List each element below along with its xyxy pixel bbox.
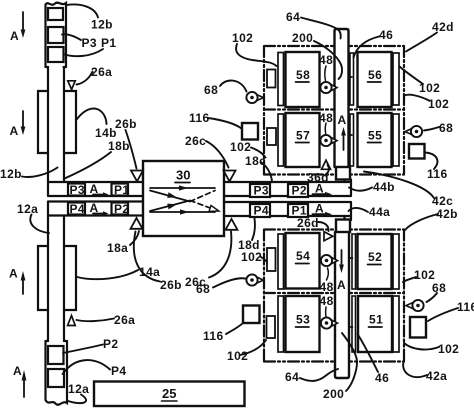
svg-text:48: 48	[320, 280, 334, 294]
fan 68 (right of 42b, apex left)	[406, 303, 413, 309]
stub connecting upper bus to plenum square 36d	[345, 180, 352, 183]
port box P2 in 12a	[48, 346, 64, 364]
flow arrow A (down) in 42b	[341, 250, 343, 266]
svg-text:46: 46	[375, 371, 389, 385]
arrow bottom horizontal in 30	[150, 211, 215, 213]
svg-text:52: 52	[368, 250, 382, 264]
module box 57	[286, 113, 320, 167]
unit 14a (rectangle behind duct)	[38, 246, 76, 310]
svg-text:53: 53	[296, 313, 310, 327]
filter rect 102 (left of 53)	[278, 296, 284, 352]
svg-text:42a: 42a	[426, 369, 447, 383]
port box P4 in lower bus	[68, 203, 85, 215]
fan 48 (row1)	[331, 85, 337, 91]
port box P1 in 12b	[48, 47, 64, 62]
svg-text:55: 55	[368, 129, 382, 143]
bus 18b upper horizontal (left of box 30)	[48, 182, 143, 196]
svg-text:A: A	[13, 364, 22, 378]
svg-text:A: A	[9, 267, 18, 281]
port box P2 in lower bus	[112, 203, 129, 215]
filter rect 102 (right of 56)	[393, 53, 399, 105]
svg-text:P4: P4	[254, 204, 269, 218]
filter rect 102 (left of 57)	[278, 114, 284, 166]
svg-text:68: 68	[204, 83, 218, 97]
svg-text:102: 102	[438, 342, 459, 356]
svg-text:26a: 26a	[114, 313, 135, 327]
svg-text:102: 102	[232, 31, 253, 45]
svg-text:P4: P4	[70, 202, 85, 216]
port box P4 in 12a	[48, 369, 64, 387]
filter rect 102 (right of 55)	[393, 114, 399, 166]
filter rect 102 (left of 56)	[350, 53, 354, 105]
svg-text:44a: 44a	[369, 205, 390, 219]
svg-text:P3: P3	[82, 36, 97, 50]
port box P3 in bus	[68, 184, 85, 196]
module box 52	[358, 234, 392, 289]
fan 68 (right of 42d, apex left)	[405, 129, 412, 135]
unit 14b (rectangle behind duct)	[38, 91, 76, 153]
row divider dash-dot in 42b	[264, 292, 404, 294]
tick row2 bar to filter	[349, 134, 353, 136]
svg-text:68: 68	[432, 281, 446, 295]
svg-text:102: 102	[241, 250, 262, 264]
svg-text:200: 200	[292, 31, 313, 45]
filter rect 102 (right of 51)	[393, 296, 399, 352]
svg-text:64: 64	[285, 370, 299, 384]
triangle (apex up, below lower bus left of 30)	[131, 218, 143, 229]
svg-text:P2: P2	[103, 337, 118, 351]
svg-text:56: 56	[368, 68, 382, 82]
svg-text:58: 58	[296, 68, 310, 82]
duct 12b upper wide section with wavy break at top	[46, 3, 67, 67]
svg-text:P1: P1	[114, 183, 129, 197]
svg-text:26a: 26a	[91, 65, 112, 79]
svg-text:102: 102	[227, 349, 248, 363]
svg-text:116: 116	[427, 167, 448, 181]
filter rect 102 (left of 55)	[350, 114, 354, 166]
shoulder of 12a wide section	[46, 340, 68, 342]
port box P? (top) in 12b	[48, 8, 63, 20]
svg-text:A: A	[338, 113, 347, 127]
arrow diag top-left to center in 30	[150, 191, 190, 202]
enclosure 42b/42a dash-dot frame	[264, 230, 404, 362]
port box P1 in right lower bus	[288, 204, 308, 217]
module box 51	[358, 296, 392, 352]
svg-text:102: 102	[428, 97, 449, 111]
svg-text:A: A	[10, 29, 19, 43]
plenum duct 64/200 (vertical bar)	[335, 29, 349, 167]
bus 18c upper horizontal (right of box 30)	[224, 182, 351, 196]
port box P3 in right upper bus	[250, 184, 270, 197]
triangle 26c (apex down, above upper bus right of 30)	[224, 171, 236, 182]
svg-text:A: A	[337, 278, 346, 292]
fan 48 (row1, bottom group)	[332, 258, 338, 264]
svg-text:46: 46	[379, 28, 393, 42]
svg-text:42b: 42b	[436, 207, 458, 221]
svg-text:30: 30	[176, 168, 190, 183]
fan 48 (row2)	[331, 138, 337, 144]
module box 55	[358, 113, 392, 167]
triangle (apex up, below lower bus right of 30)	[226, 219, 238, 230]
fan 68 (left of 42b)	[257, 277, 264, 283]
svg-text:18b: 18b	[108, 139, 130, 153]
svg-text:12a: 12a	[68, 382, 89, 396]
triangle 26a (lower, apex up)	[68, 316, 76, 326]
fan 48 (row2, bottom group)	[332, 320, 338, 326]
row divider dash-dot in 42d	[264, 108, 404, 110]
svg-text:26b: 26b	[160, 278, 182, 292]
shoulder of 12b wide section	[46, 66, 67, 68]
svg-text:200: 200	[323, 387, 344, 401]
svg-text:64: 64	[286, 10, 300, 24]
module box 56	[358, 52, 392, 107]
svg-text:14b: 14b	[95, 126, 117, 140]
svg-text:25: 25	[162, 386, 176, 401]
svg-text:26b: 26b	[115, 117, 137, 131]
svg-text:116: 116	[189, 111, 210, 125]
port box P3 in 12b	[48, 27, 64, 43]
plenum square 36d at bar bottom	[336, 167, 350, 180]
damper square 116 (left of 42b)	[243, 306, 260, 324]
inlet rect 102 (row2 left)	[267, 316, 276, 338]
port box P1 in bus	[112, 184, 129, 196]
svg-text:A: A	[10, 124, 19, 138]
CENTER BOX 30	[131, 161, 352, 236]
svg-text:26d: 26d	[297, 216, 319, 230]
svg-text:48: 48	[320, 294, 334, 308]
switch box 30	[143, 161, 224, 236]
filter rect 102 (left of 51)	[352, 296, 356, 352]
tick row1 bar to filter	[349, 76, 353, 78]
inlet rect 102 (row2 left)	[267, 128, 276, 145]
svg-text:102: 102	[230, 140, 251, 154]
duct 12a lower wide section with wavy break at bottom	[46, 341, 68, 405]
svg-text:44b: 44b	[373, 180, 395, 194]
svg-text:P3: P3	[70, 183, 85, 197]
filter rect 102 (right of 52)	[393, 234, 399, 289]
arrow top horizontal in 30	[150, 187, 215, 189]
module box 54	[286, 233, 320, 289]
svg-text:48: 48	[319, 53, 333, 67]
bus 18d lower horizontal (right of box 30)	[224, 202, 351, 216]
svg-text:68: 68	[439, 121, 453, 135]
inlet rect 102 (row1 left)	[267, 248, 276, 271]
dashed diag center to bottom-right with arrowhead in 30	[190, 201, 213, 210]
fan 68 (left of 42d)	[257, 95, 264, 101]
svg-text:116: 116	[203, 329, 224, 343]
svg-text:P4: P4	[111, 364, 126, 378]
triangle 26d (apex right)	[324, 232, 333, 241]
svg-text:12a: 12a	[17, 202, 38, 216]
svg-text:36d: 36d	[307, 171, 329, 185]
damper square 116 (left of 42d)	[242, 123, 258, 140]
svg-text:102: 102	[414, 268, 435, 282]
svg-text:18a: 18a	[107, 241, 128, 255]
svg-text:51: 51	[369, 313, 383, 327]
triangle 26a (upper, apex down)	[68, 81, 75, 90]
duct 12a narrow section below bus	[48, 216, 64, 342]
svg-text:68: 68	[196, 282, 210, 296]
svg-text:116: 116	[457, 300, 474, 314]
arrow diag bottom-left to center in 30	[150, 201, 190, 212]
filter rect 102 (left of 58)	[278, 53, 284, 106]
svg-text:P2: P2	[292, 184, 307, 198]
enclosure 42d dash-dot frame	[264, 46, 404, 175]
stub connecting lower bus to plenum square 26d	[345, 216, 352, 220]
damper square 116 (right of 42d)	[409, 144, 425, 159]
plenum square 26d at bar top	[336, 220, 350, 233]
triangle 26b (apex down, above upper bus left of 30)	[131, 171, 143, 182]
damper square 116 (right of 42b)	[410, 317, 426, 338]
svg-text:P1: P1	[101, 36, 116, 50]
svg-text:P3: P3	[254, 184, 269, 198]
TOP RIGHT GROUP 42d	[242, 29, 425, 180]
triangle 36d (apex up)	[322, 160, 331, 169]
svg-text:12b: 12b	[91, 18, 113, 32]
tick row2 bar to filter (bottom group)	[349, 326, 353, 328]
svg-text:12b: 12b	[0, 167, 22, 181]
plenum duct 64/200 (vertical bar, bottom group)	[335, 232, 349, 378]
svg-text:P2: P2	[114, 202, 129, 216]
svg-text:54: 54	[296, 249, 310, 263]
port box P4 in right lower bus	[250, 204, 270, 217]
LEFT ASSEMBLY	[9, 3, 245, 406]
tick row1 bar to filter (bottom group)	[349, 257, 353, 259]
module box 53	[286, 296, 320, 352]
bus 18a lower horizontal (left of box 30)	[48, 202, 143, 216]
duct 12b narrow section down to bus	[48, 67, 64, 182]
BOTTOM RIGHT GROUP 42a/42b	[243, 220, 426, 379]
svg-text:42c: 42c	[432, 194, 453, 208]
box 25	[94, 382, 245, 407]
inlet rect 102 (row1 left)	[267, 70, 276, 88]
port box P2 in right upper bus	[288, 184, 308, 197]
svg-text:57: 57	[296, 129, 310, 143]
filter rect 102 (left of 52)	[352, 234, 356, 289]
dashed diag center to top-right in 30	[190, 191, 215, 202]
svg-text:42d: 42d	[432, 20, 454, 34]
svg-text:26c: 26c	[185, 134, 206, 148]
filter rect 102 (left of 54)	[278, 234, 284, 289]
svg-text:18c: 18c	[245, 154, 266, 168]
module box 58	[286, 52, 320, 107]
